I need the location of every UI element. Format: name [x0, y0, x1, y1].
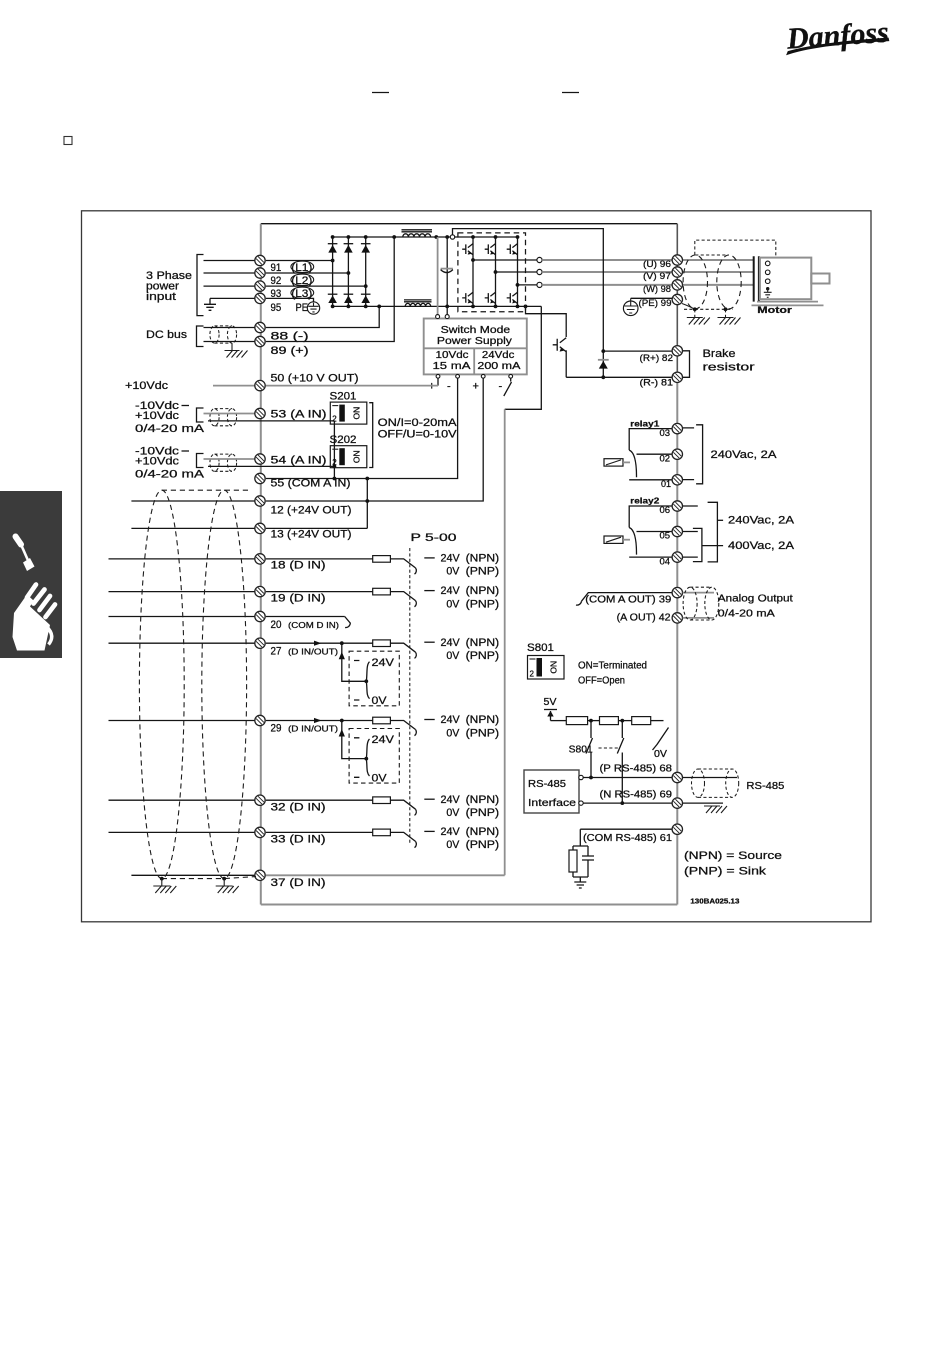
svg-text:06: 06 — [660, 505, 671, 516]
SMPS top input circles — [436, 315, 440, 319]
svg-text:S202: S202 — [330, 434, 357, 446]
svg-text:0/4-20 mA: 0/4-20 mA — [135, 423, 205, 435]
terminal 98 — [672, 280, 682, 290]
terminal 01 — [672, 475, 682, 485]
terminal 12 — [255, 496, 265, 506]
svg-text:ON: ON — [351, 450, 361, 463]
relay2 contact — [629, 506, 672, 528]
wire 29 left — [109, 720, 255, 722]
svg-text:24V: 24V — [441, 553, 461, 565]
phase node V — [494, 270, 498, 274]
terminal 05 — [672, 526, 682, 536]
S801 dashed gang link — [599, 747, 620, 749]
shield top dashed link — [162, 489, 248, 491]
Danfoss logo — [784, 16, 890, 56]
relay1 range bracket — [683, 428, 694, 480]
29 internal 24V/0V box — [349, 729, 399, 784]
right terminal strip lower — [676, 377, 678, 904]
SMPS box — [424, 319, 527, 375]
RS-485 shield ground — [704, 806, 727, 813]
terminal 81 — [672, 372, 682, 382]
svg-text:27: 27 — [271, 646, 282, 658]
wire 33 left — [109, 831, 255, 833]
motor terminals inside — [765, 261, 770, 266]
wire 89 to DC+ rail — [266, 237, 394, 342]
svg-text:relay1: relay1 — [630, 418, 659, 428]
svg-text:(NPN): (NPN) — [466, 826, 500, 838]
svg-text:(PE) 99: (PE) 99 — [639, 298, 672, 309]
control cable shield ellipse 1 — [139, 490, 184, 878]
wire 99 — [631, 297, 672, 299]
svg-text:0V: 0V — [446, 727, 460, 739]
terminal 19 row — [255, 586, 265, 596]
svg-text:0V: 0V — [446, 839, 460, 851]
svg-text:13 (+24V OUT): 13 (+24V OUT) — [271, 529, 352, 541]
svg-text:32 (D IN): 32 (D IN) — [271, 802, 326, 814]
inverter column 2 — [495, 237, 497, 306]
bracket 53 — [197, 408, 204, 422]
svg-text:5V: 5V — [544, 697, 557, 708]
svg-text:04: 04 — [660, 556, 671, 567]
svg-text:ON: ON — [351, 407, 361, 420]
motor shield dashed bottom — [684, 308, 733, 310]
analog out shield cylinder — [683, 593, 714, 618]
control cable shield ellipse 2 — [202, 490, 247, 878]
phase output circles — [537, 257, 542, 262]
brake resistor bracket — [683, 351, 690, 378]
top inductor — [403, 234, 431, 237]
svg-text:0V: 0V — [446, 566, 460, 578]
shield ground 2 — [223, 879, 225, 886]
bracket 54 — [197, 454, 204, 468]
svg-text:12 (+24V OUT): 12 (+24V OUT) — [271, 505, 352, 517]
terminal 55 — [255, 473, 265, 483]
relay1 coil — [604, 459, 623, 466]
motor wire U — [542, 259, 753, 261]
wire L2 — [204, 272, 255, 274]
terminal 27 — [255, 638, 265, 648]
svg-text:88 (-): 88 (-) — [271, 331, 309, 343]
shield cylinder 54 — [210, 454, 219, 471]
terminal 54 — [255, 454, 265, 464]
terminal 91 — [255, 255, 265, 265]
input PE ground — [209, 298, 211, 304]
svg-text:DC bus: DC bus — [146, 329, 188, 341]
wire 20 left — [109, 616, 255, 618]
wire 88 to DC- rail — [266, 306, 379, 327]
27 internal 24V/0V box — [349, 651, 399, 706]
terminal 97 — [672, 267, 682, 277]
24V- switch to 0V rail — [504, 378, 512, 396]
svg-text:02: 02 — [660, 453, 671, 464]
wire 95 to PE symbol — [266, 298, 314, 302]
svg-text:PE: PE — [296, 302, 309, 314]
RS-485 interface box — [524, 770, 579, 813]
svg-text:(R+) 82: (R+) 82 — [640, 353, 674, 364]
terminal 99 — [672, 294, 682, 304]
DC bus shield ground — [231, 343, 233, 350]
svg-text:91: 91 — [271, 262, 282, 274]
svg-text:(D IN/OUT): (D IN/OUT) — [288, 724, 338, 734]
svg-text:2: 2 — [332, 415, 337, 424]
svg-text:OFF/U=0-10V: OFF/U=0-10V — [378, 428, 458, 440]
terminal 50 — [255, 380, 265, 390]
svg-text:24V: 24V — [441, 826, 461, 838]
terminal 20 — [255, 611, 265, 621]
terminal 32 row — [255, 795, 265, 805]
svg-text:130BA025.13: 130BA025.13 — [690, 899, 739, 906]
DC+ top rail — [333, 236, 518, 238]
svg-text:19 (D IN): 19 (D IN) — [271, 593, 326, 605]
svg-text:OFF=Open: OFF=Open — [578, 676, 625, 687]
wire 88 — [204, 327, 255, 329]
svg-text:S801: S801 — [527, 642, 554, 654]
svg-text:15 mA: 15 mA — [433, 360, 471, 372]
svg-text:S801: S801 — [569, 744, 593, 755]
relay1 contact — [629, 429, 672, 451]
svg-text:54 (A IN): 54 (A IN) — [271, 455, 327, 467]
svg-text:(PNP): (PNP) — [466, 566, 500, 578]
brake chopper feed from DC- — [526, 306, 567, 337]
wire 37 — [131, 874, 254, 876]
junction dots DC rails — [392, 235, 396, 239]
svg-text:(PNP): (PNP) — [466, 727, 500, 739]
SMPS output circles — [436, 374, 440, 378]
svg-text:240Vac, 2A: 240Vac, 2A — [711, 449, 778, 461]
relay2 inner bracket — [693, 528, 702, 561]
svg-text:01: 01 — [661, 479, 671, 490]
inverter column 1 — [472, 237, 474, 306]
drive enclosure bottom edge — [261, 904, 678, 906]
rectifier leg 3 — [365, 237, 367, 306]
terminal 04 — [672, 552, 682, 562]
svg-text:resistor: resistor — [703, 361, 755, 373]
svg-text:(PNP) = Sink: (PNP) = Sink — [684, 865, 767, 877]
terminal 61 — [672, 824, 682, 834]
svg-text:-: - — [447, 381, 451, 393]
terminal 69 — [672, 798, 682, 808]
inverter dashed box — [458, 233, 526, 312]
svg-text:ON/I=0-20mA: ON/I=0-20mA — [378, 417, 458, 429]
wire L3 — [204, 285, 255, 287]
phase node U — [471, 258, 475, 262]
shield ground 1 — [161, 879, 163, 886]
terminal 39 — [672, 587, 682, 597]
svg-text:Motor: Motor — [757, 305, 792, 316]
svg-text:RS-485: RS-485 — [746, 780, 784, 792]
svg-text:+10Vdc: +10Vdc — [135, 456, 180, 468]
PE circle symbol — [307, 302, 319, 314]
sidebar badge (hand+screwdriver icon) — [0, 491, 62, 658]
motor shield ground A — [694, 309, 696, 317]
svg-text:0V: 0V — [446, 598, 460, 610]
header rule fragment left — [372, 92, 389, 94]
svg-text:92: 92 — [271, 275, 282, 287]
svg-text:(PNP): (PNP) — [466, 650, 500, 662]
motor cable shield ellipse B — [717, 255, 741, 309]
motor shaft — [811, 274, 829, 284]
svg-text:0/4-20 mA: 0/4-20 mA — [135, 469, 205, 481]
wire 61 — [580, 828, 672, 830]
svg-text:(PNP): (PNP) — [466, 839, 500, 851]
terminal 95 PE — [255, 293, 265, 303]
shield bottom dashed link — [162, 877, 256, 879]
svg-text:53 (A IN): 53 (A IN) — [271, 409, 327, 421]
terminal 92 — [255, 268, 265, 278]
svg-text:20: 20 — [271, 619, 282, 631]
wire 53 — [204, 413, 255, 415]
terminal 96 — [672, 255, 682, 265]
PE bus wire (top) — [261, 223, 678, 225]
label 400Vac 2A — [702, 545, 723, 547]
relay2 coil — [604, 536, 623, 543]
rectifier leg 2 — [347, 237, 349, 306]
svg-text:S201: S201 — [330, 391, 357, 403]
terminal 93 — [255, 281, 265, 291]
wire 53 return — [208, 421, 334, 479]
shield cylinder 53 — [210, 409, 219, 426]
svg-text:0V: 0V — [446, 650, 460, 662]
wire 12 — [131, 500, 254, 502]
svg-text:03: 03 — [660, 428, 671, 439]
svg-text:24V: 24V — [441, 794, 461, 806]
section checkbox — [64, 137, 72, 145]
terminal 89 — [255, 336, 265, 346]
motor wire W — [542, 284, 753, 286]
DC link capacitor — [441, 268, 453, 270]
24V+ lead down to 12 — [266, 378, 483, 501]
internal 0V rail corner — [505, 306, 542, 409]
right terminal strip upper — [676, 224, 678, 378]
svg-text:(N RS-485) 69: (N RS-485) 69 — [600, 790, 673, 801]
terminal 13 — [255, 523, 265, 533]
brake IGBT — [553, 338, 567, 352]
svg-text:2: 2 — [332, 458, 337, 467]
wire 37 to 0V rail — [266, 874, 505, 876]
internal 0V rail vertical — [504, 409, 506, 875]
motor wire V — [542, 271, 753, 273]
svg-text:24V: 24V — [441, 637, 461, 649]
svg-text:95: 95 — [271, 302, 282, 314]
wire 13 — [131, 527, 367, 529]
motor internal ground — [764, 289, 772, 298]
svg-text:2: 2 — [530, 670, 535, 679]
svg-text:Analog Output: Analog Output — [718, 593, 793, 605]
motor body — [760, 258, 811, 300]
svg-text:240Vac, 2A: 240Vac, 2A — [728, 515, 795, 527]
terminal 82 — [672, 346, 682, 356]
svg-text:24V: 24V — [441, 714, 461, 726]
brake DC+ tap circle — [450, 235, 454, 239]
motor shield dashed top — [695, 254, 729, 256]
svg-text:(NPN): (NPN) — [466, 637, 500, 649]
99 shield bond — [682, 304, 695, 310]
label 240Vac 2A (relay2) — [717, 519, 723, 521]
wire R+ — [603, 350, 672, 352]
terminal 37 — [255, 870, 265, 880]
DC- bottom rail — [333, 305, 542, 307]
svg-text:(NPN): (NPN) — [466, 553, 500, 565]
terminal 33 row — [255, 827, 265, 837]
0V switch — [653, 728, 669, 751]
terminal 29 — [255, 715, 265, 725]
svg-text:18 (D IN): 18 (D IN) — [271, 560, 326, 572]
rectifier leg 1 — [332, 237, 334, 306]
svg-text:55 (COM A IN): 55 (COM A IN) — [271, 478, 351, 490]
wire L1 — [204, 260, 255, 262]
S201/S202 bracket — [369, 403, 373, 468]
svg-text:(V) 97: (V) 97 — [643, 271, 671, 282]
brake freewheel diode — [602, 351, 604, 377]
wire 19 left — [109, 591, 255, 593]
motor terminal bars — [754, 256, 759, 301]
relay2 stubs — [683, 506, 698, 557]
svg-text:89 (+): 89 (+) — [271, 345, 309, 357]
svg-text:P 5-00: P 5-00 — [411, 532, 457, 544]
terminal 03 — [672, 423, 682, 433]
svg-text:+10Vdc: +10Vdc — [125, 380, 169, 392]
wire 18 left — [109, 558, 255, 560]
svg-text:ON: ON — [549, 661, 559, 674]
61 RC to ground — [573, 829, 588, 882]
svg-text:0/4-20 mA: 0/4-20 mA — [718, 607, 775, 619]
brake DC+ feed — [453, 229, 604, 352]
svg-text:33 (D IN): 33 (D IN) — [271, 834, 326, 846]
svg-text:(NPN): (NPN) — [466, 714, 500, 726]
bottom inductor — [405, 303, 431, 306]
svg-text:0V: 0V — [654, 749, 667, 760]
wire R- — [566, 376, 672, 378]
motor PE dashed route — [695, 240, 776, 258]
svg-text:(COM RS-485) 61: (COM RS-485) 61 — [583, 833, 672, 844]
svg-text:(NPN) = Source: (NPN) = Source — [684, 850, 782, 862]
terminal 88 — [255, 322, 265, 332]
DC bus shield cylinder — [210, 326, 219, 343]
svg-text:ON=Terminated: ON=Terminated — [578, 661, 647, 672]
svg-text:Switch Mode: Switch Mode — [441, 324, 511, 336]
svg-text:200 mA: 200 mA — [477, 360, 520, 372]
svg-text:(NPN): (NPN) — [466, 794, 500, 806]
motor shield ground B — [725, 309, 727, 317]
left terminal strip — [260, 224, 262, 905]
DC link bar (black) — [446, 237, 448, 315]
terminal 68 — [672, 772, 682, 782]
svg-text:24V: 24V — [441, 585, 461, 597]
S801 switch blades — [586, 721, 624, 804]
P 5-00 dashed rail — [409, 548, 411, 845]
svg-text:-: - — [499, 381, 503, 393]
header rule fragment right — [562, 92, 579, 94]
terminal 42 — [672, 613, 682, 623]
tie 55-12-13 — [366, 479, 368, 529]
svg-text:Power Supply: Power Supply — [437, 335, 513, 347]
svg-text:400Vac, 2A: 400Vac, 2A — [728, 540, 795, 552]
phase node W — [516, 283, 520, 287]
wire 20 hook — [266, 616, 345, 618]
diagram outer border — [82, 211, 872, 922]
PE circle symbol output — [623, 301, 638, 316]
svg-text:(D IN/OUT): (D IN/OUT) — [288, 647, 338, 657]
svg-text:Interface: Interface — [528, 797, 576, 809]
svg-text:0V: 0V — [446, 807, 460, 819]
10V+ lead to terminal 50 rail — [437, 378, 439, 385]
svg-text:(W) 98: (W) 98 — [643, 284, 671, 295]
svg-text:(R-) 81: (R-) 81 — [640, 377, 674, 388]
svg-text:37 (D IN): 37 (D IN) — [271, 877, 326, 889]
svg-text:+: + — [473, 381, 479, 393]
svg-text:(COM A OUT) 39: (COM A OUT) 39 — [585, 595, 671, 606]
inverter column 3 — [517, 237, 519, 306]
motor cable shield ellipse A — [683, 255, 707, 309]
svg-text:0V: 0V — [372, 695, 388, 707]
wire +10Vdc left — [213, 385, 255, 387]
input bracket — [197, 255, 204, 316]
svg-text:24V: 24V — [372, 657, 395, 669]
svg-text:(NPN): (NPN) — [466, 585, 500, 597]
terminal 53 — [255, 408, 265, 418]
termination resistor chain — [551, 720, 567, 722]
motor base — [752, 302, 824, 306]
svg-text:(COM D IN): (COM D IN) — [288, 620, 339, 630]
svg-text:(A OUT) 42: (A OUT) 42 — [617, 613, 671, 624]
svg-text:input: input — [146, 291, 176, 303]
svg-text:50 (+10 V OUT): 50 (+10 V OUT) — [271, 373, 359, 385]
wire 27 left — [109, 642, 255, 644]
svg-text:0V: 0V — [372, 773, 388, 785]
wire 54 return — [208, 465, 334, 467]
terminal 18 row — [255, 554, 265, 564]
svg-text:05: 05 — [660, 531, 671, 542]
wire PE input — [210, 297, 255, 299]
svg-text:RS-485: RS-485 — [528, 778, 566, 790]
DC bus bracket — [197, 326, 204, 347]
DC link bar (gray) — [437, 237, 439, 315]
wire 32 left — [109, 799, 255, 801]
10V- lead down to 55 — [266, 378, 458, 478]
svg-text:+10Vdc: +10Vdc — [135, 410, 180, 422]
phase wires into bridge — [266, 261, 366, 287]
wire 54 — [204, 458, 255, 460]
wire 68 — [583, 777, 672, 779]
svg-text:(U) 96: (U) 96 — [643, 259, 671, 270]
wire 89 — [204, 341, 255, 343]
wire 69 — [583, 802, 672, 804]
svg-text:(PNP): (PNP) — [466, 807, 500, 819]
svg-text:29: 29 — [271, 723, 282, 735]
relay2 outer bracket — [708, 502, 718, 562]
RS-485 cable shield — [683, 778, 737, 804]
terminal 06 — [672, 501, 682, 511]
svg-text:(PNP): (PNP) — [466, 598, 500, 610]
wire 50 to SMPS — [266, 385, 438, 387]
svg-text:relay2: relay2 — [630, 496, 659, 506]
wire 39 — [582, 593, 673, 602]
svg-text:(P RS-485) 68: (P RS-485) 68 — [600, 763, 673, 774]
svg-text:24V: 24V — [372, 734, 395, 746]
terminal 02 — [672, 449, 682, 459]
svg-text:Brake: Brake — [703, 348, 736, 360]
